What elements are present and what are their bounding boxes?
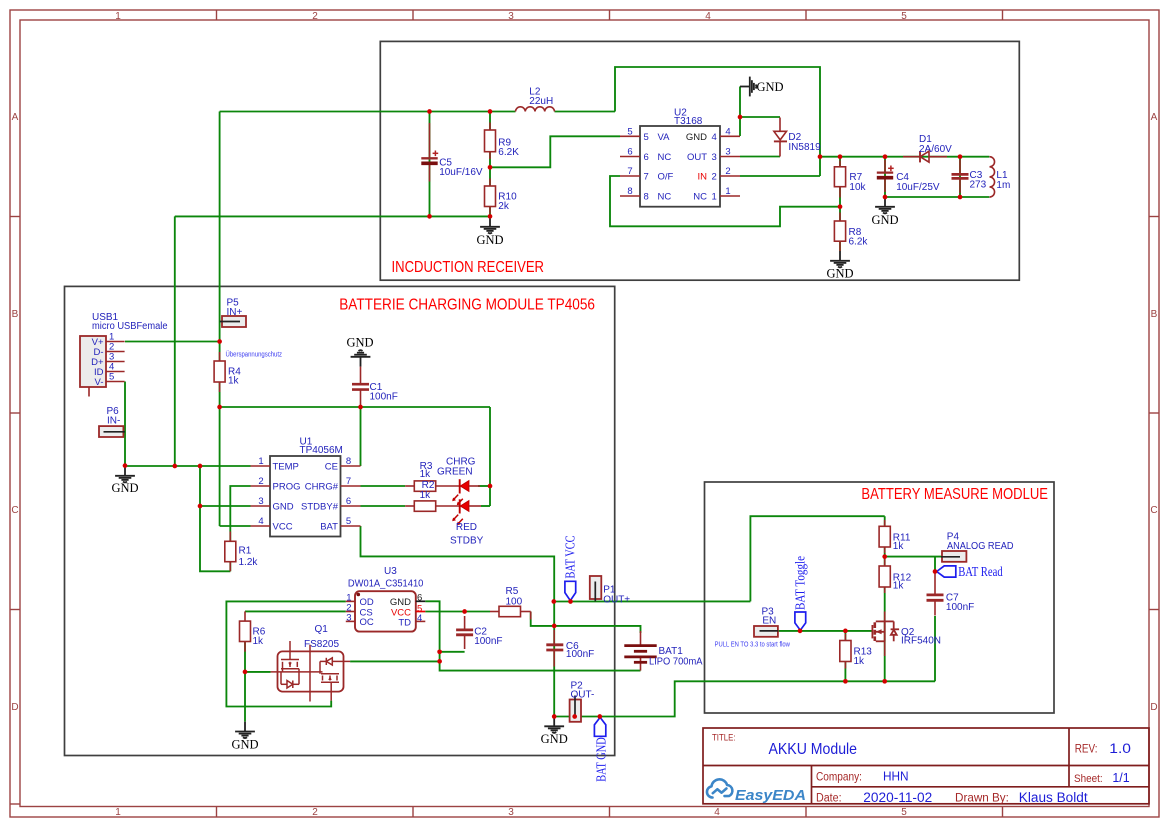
svg-text:Sheet:: Sheet:	[1074, 773, 1103, 785]
node R9 bottom	[488, 165, 493, 170]
svg-text:IN: IN	[698, 172, 708, 183]
svg-text:3: 3	[346, 613, 351, 624]
net flag BAT VCC	[562, 536, 577, 601]
node bat vcc flag	[568, 599, 573, 604]
svg-text:10uF/25V: 10uF/25V	[896, 182, 940, 193]
wire	[884, 516, 886, 681]
svg-text:1k: 1k	[420, 490, 432, 501]
node R7 top	[838, 154, 843, 159]
svg-text:273: 273	[970, 180, 987, 191]
wire	[350, 660, 440, 662]
resistor R2	[405, 501, 459, 511]
op-amp U3 DW01A	[346, 566, 426, 631]
svg-text:3: 3	[258, 496, 263, 507]
net flag BAT GND	[593, 717, 608, 781]
wire	[844, 631, 846, 681]
node C6 top	[552, 624, 557, 629]
svg-text:5: 5	[109, 372, 114, 383]
svg-text:6: 6	[346, 496, 351, 507]
wire	[531, 612, 641, 634]
svg-text:5: 5	[901, 11, 907, 22]
ground (R6)	[231, 722, 258, 752]
svg-text:8: 8	[644, 192, 649, 203]
LED CHRG green	[437, 456, 480, 505]
svg-text:2k: 2k	[498, 201, 510, 212]
node usb gnd	[123, 463, 128, 468]
svg-text:22uH: 22uH	[529, 96, 553, 107]
svg-text:2: 2	[725, 166, 730, 177]
node temp2	[198, 464, 203, 469]
svg-text:2: 2	[312, 11, 318, 22]
wire	[220, 406, 490, 408]
svg-text:micro USBFemale: micro USBFemale	[92, 321, 168, 332]
svg-text:4: 4	[258, 516, 263, 527]
connector P5 IN+	[220, 297, 246, 327]
svg-text:IN-: IN-	[107, 415, 120, 426]
node R6 bottom	[243, 670, 248, 675]
connector P4 ANALOG READ	[941, 531, 1014, 562]
svg-text:BAT Read: BAT Read	[958, 564, 1003, 579]
node R7 bottom	[838, 204, 843, 209]
node C5 bottom	[427, 214, 432, 219]
svg-text:GND: GND	[111, 481, 138, 495]
ground (C4)	[871, 197, 898, 227]
wire	[740, 116, 780, 118]
svg-text:1k: 1k	[854, 656, 866, 667]
node C5 top	[427, 109, 432, 114]
ground (R10)	[476, 217, 503, 247]
wire	[934, 616, 936, 681]
svg-text:BATTERIE CHARGING MODULE TP405: BATTERIE CHARGING MODULE TP4056	[339, 297, 595, 314]
svg-text:GND: GND	[757, 80, 784, 94]
svg-text:2: 2	[258, 476, 263, 487]
wire	[174, 216, 176, 466]
resistor R4	[214, 352, 241, 392]
transistor Q1 FS8205	[271, 624, 351, 702]
svg-text:INCDUCTION RECEIVER: INCDUCTION RECEIVER	[392, 259, 545, 276]
svg-text:3: 3	[508, 807, 514, 818]
svg-text:TITLE:: TITLE:	[712, 733, 736, 744]
wire	[175, 215, 490, 217]
resistor R10	[485, 179, 518, 214]
wire	[200, 466, 230, 571]
svg-text:8: 8	[346, 456, 351, 467]
svg-text:C: C	[11, 505, 18, 516]
wire	[490, 136, 620, 167]
svg-text:1k: 1k	[893, 541, 905, 552]
node temp1	[172, 464, 177, 469]
wire	[220, 111, 516, 113]
svg-text:DW01A_C351410: DW01A_C351410	[348, 579, 424, 590]
wire	[839, 157, 841, 251]
svg-text:GND: GND	[686, 132, 707, 143]
node bat read	[933, 569, 938, 574]
wire	[245, 610, 346, 612]
svg-text:OUT-: OUT-	[571, 689, 595, 700]
svg-text:C: C	[1150, 505, 1157, 516]
wire	[125, 465, 251, 467]
wire	[425, 611, 490, 613]
svg-text:3: 3	[508, 11, 514, 22]
node U2 gnd	[738, 115, 743, 120]
connector P3 EN	[754, 606, 778, 637]
svg-text:IRF540N: IRF540N	[901, 636, 941, 647]
op-amp U2 T3168	[620, 108, 740, 207]
svg-text:TEMP: TEMP	[273, 462, 299, 473]
svg-text:1k: 1k	[228, 376, 240, 387]
svg-text:B: B	[1151, 309, 1158, 320]
svg-text:EasyEDA: EasyEDA	[735, 788, 806, 804]
wire	[934, 557, 936, 572]
svg-text:R1: R1	[239, 545, 252, 556]
svg-text:6.2k: 6.2k	[849, 237, 869, 248]
svg-text:GND: GND	[476, 233, 503, 247]
svg-text:OC: OC	[360, 617, 374, 628]
node OUT right	[818, 154, 823, 159]
svg-text:BAT1: BAT1	[659, 646, 684, 657]
svg-text:2A/60V: 2A/60V	[919, 144, 952, 155]
svg-text:OUT+: OUT+	[603, 594, 630, 605]
svg-text:GREEN: GREEN	[437, 466, 473, 477]
svg-text:D: D	[1150, 702, 1157, 713]
induction receiver box	[380, 41, 1019, 280]
wire	[739, 87, 741, 137]
wire	[959, 157, 961, 197]
wire	[125, 341, 220, 343]
node R10 bottom	[488, 214, 493, 219]
capacitor C4	[877, 160, 940, 193]
wire	[429, 112, 431, 217]
node C4 bottom	[883, 195, 888, 200]
wire	[361, 505, 406, 507]
node R9 top	[488, 109, 493, 114]
svg-text:Überspannungschutz: Überspannungschutz	[226, 351, 283, 359]
wire	[820, 156, 989, 158]
LED STDBY red	[450, 499, 484, 546]
svg-text:O/F: O/F	[658, 172, 674, 183]
svg-text:REV:: REV:	[1075, 744, 1098, 756]
capacitor C1	[352, 367, 398, 407]
svg-text:IN+: IN+	[227, 307, 243, 318]
svg-text:6.2K: 6.2K	[498, 147, 519, 158]
ground (C1, inverted)	[346, 336, 373, 367]
node R4 bottom	[217, 405, 222, 410]
transistor Q2 IRF540N	[872, 612, 941, 657]
svg-text:1k: 1k	[893, 581, 905, 592]
wire	[124, 382, 126, 467]
wire	[226, 601, 345, 706]
wire	[884, 157, 886, 197]
svg-text:GND: GND	[346, 336, 373, 350]
wire	[489, 112, 491, 217]
svg-text:6: 6	[627, 147, 632, 158]
connector P2 OUT-	[570, 681, 595, 722]
node C3 bottom	[958, 195, 963, 200]
wire	[244, 642, 246, 722]
svg-text:3: 3	[725, 147, 730, 158]
battery measure module box	[705, 482, 1055, 713]
svg-text:STDBY: STDBY	[450, 536, 484, 547]
wire	[750, 516, 884, 601]
node C1	[358, 405, 363, 410]
ground (sideways, U2)	[740, 77, 784, 97]
svg-text:Company:: Company:	[816, 770, 862, 784]
svg-text:Date:: Date:	[816, 793, 842, 805]
svg-text:GND: GND	[541, 732, 568, 746]
node C3 top	[958, 154, 963, 159]
svg-text:1k: 1k	[420, 469, 432, 480]
resistor R6	[240, 611, 266, 651]
svg-text:4: 4	[705, 11, 711, 22]
svg-text:1: 1	[258, 456, 263, 467]
wire	[885, 556, 943, 558]
svg-text:5: 5	[644, 132, 649, 143]
node out+ corner	[551, 599, 556, 604]
svg-text:4: 4	[417, 613, 422, 624]
svg-text:BAT GND: BAT GND	[593, 737, 608, 782]
wire	[610, 176, 840, 226]
svg-text:1m: 1m	[996, 180, 1010, 191]
wire	[740, 175, 820, 177]
svg-text:1: 1	[712, 192, 717, 203]
op-amp U1 TP4056M	[251, 436, 361, 536]
svg-text:1: 1	[115, 807, 121, 818]
wire	[778, 630, 871, 632]
inductor L1	[990, 157, 1011, 197]
svg-text:BAT: BAT	[320, 522, 338, 533]
wire	[425, 601, 640, 670]
svg-text:PULL EN TO 3.3 to start flow: PULL EN TO 3.3 to start flow	[715, 639, 791, 648]
svg-text:GND: GND	[273, 502, 294, 513]
svg-text:10k: 10k	[849, 182, 866, 193]
resistor R13	[840, 634, 872, 669]
wire	[554, 600, 750, 602]
wire	[200, 505, 251, 507]
wire	[245, 671, 271, 673]
resistor R12	[879, 559, 911, 594]
svg-text:CE: CE	[325, 462, 338, 473]
svg-text:IN5819: IN5819	[788, 142, 821, 153]
wire	[478, 485, 490, 487]
svg-text:BAT VCC: BAT VCC	[562, 536, 577, 579]
svg-text:7: 7	[644, 172, 649, 183]
capacitor C2	[456, 616, 502, 649]
wire	[220, 525, 251, 527]
svg-text:6: 6	[644, 152, 649, 163]
svg-text:7: 7	[627, 166, 632, 177]
battery charging module box	[65, 286, 615, 755]
svg-text:Klaus Boldt: Klaus Boldt	[1019, 790, 1088, 805]
svg-text:NC: NC	[658, 152, 672, 163]
svg-text:2020-11-02: 2020-11-02	[863, 790, 932, 805]
diode D1	[903, 134, 952, 162]
svg-text:2: 2	[312, 807, 318, 818]
title block	[703, 728, 1149, 805]
svg-text:GND: GND	[231, 737, 258, 751]
svg-text:ANALOG READ: ANALOG READ	[947, 541, 1014, 552]
node P5	[217, 339, 222, 344]
wire	[361, 526, 555, 717]
svg-text:PROG: PROG	[273, 482, 301, 493]
svg-text:U3: U3	[384, 566, 397, 577]
node led1	[488, 484, 493, 489]
svg-text:4: 4	[714, 807, 720, 818]
svg-text:FS8205: FS8205	[304, 639, 339, 650]
svg-text:CHRG#: CHRG#	[305, 482, 339, 493]
svg-text:TP4056M: TP4056M	[300, 445, 343, 456]
svg-text:A: A	[12, 112, 19, 123]
node C4 top	[883, 154, 888, 159]
diode D2	[774, 118, 821, 157]
resistor R1	[225, 532, 259, 572]
svg-text:VCC: VCC	[273, 522, 293, 533]
ground (USB)	[111, 466, 138, 495]
svg-text:1: 1	[115, 11, 121, 22]
ground (R8)	[826, 251, 853, 281]
node gnd3	[198, 504, 203, 509]
svg-text:EN: EN	[762, 616, 776, 627]
section boxes	[65, 41, 1055, 755]
svg-text:7: 7	[346, 476, 351, 487]
svg-text:Drawn By:: Drawn By:	[955, 791, 1009, 805]
net flag BAT Read	[937, 564, 1003, 579]
svg-text:100: 100	[506, 596, 523, 607]
wire	[481, 505, 490, 507]
svg-text:5: 5	[346, 516, 351, 527]
svg-text:1.2k: 1.2k	[239, 557, 259, 568]
ground (P2)	[541, 717, 568, 747]
node C2 bottom	[437, 649, 442, 654]
node Q2 source	[882, 679, 887, 684]
svg-text:2: 2	[712, 172, 717, 183]
svg-text:5: 5	[901, 807, 907, 818]
svg-text:6: 6	[417, 593, 422, 604]
svg-text:100nF: 100nF	[566, 649, 594, 660]
resistor R3	[405, 461, 459, 501]
texts	[0, 0, 1, 1]
svg-text:NC: NC	[658, 192, 672, 203]
svg-text:B: B	[12, 309, 19, 320]
wire	[489, 407, 491, 506]
wire	[361, 485, 406, 487]
svg-text:STDBY#: STDBY#	[301, 502, 339, 513]
wire	[554, 681, 935, 716]
wire	[885, 196, 989, 198]
svg-text:10uF/16V: 10uF/16V	[439, 167, 483, 178]
node R11 bottom	[882, 554, 887, 559]
svg-text:RED: RED	[456, 522, 477, 533]
resistor R8	[834, 213, 868, 252]
svg-text:LIPO 700mA: LIPO 700mA	[649, 657, 703, 668]
svg-text:AKKU Module: AKKU Module	[769, 741, 858, 758]
node bat gnd flag	[597, 714, 602, 719]
svg-text:4: 4	[725, 126, 730, 137]
resistor R5	[490, 586, 531, 620]
svg-text:TD: TD	[398, 617, 411, 628]
svg-text:1: 1	[725, 186, 730, 197]
svg-text:100nF: 100nF	[474, 636, 502, 647]
svg-text:V-: V-	[95, 377, 104, 388]
svg-text:A: A	[1151, 112, 1158, 123]
svg-text:100nF: 100nF	[370, 392, 398, 403]
wire	[555, 111, 616, 113]
wire	[219, 112, 221, 527]
wire	[360, 407, 362, 466]
svg-text:Q1: Q1	[315, 624, 329, 635]
wire	[740, 156, 780, 158]
svg-text:D: D	[11, 702, 18, 713]
svg-text:GND: GND	[826, 267, 853, 281]
svg-text:8: 8	[627, 186, 632, 197]
node P2 pin	[572, 714, 577, 719]
node P2 gnd	[552, 714, 557, 719]
capacitor C5	[421, 123, 483, 182]
capacitor C7	[927, 572, 975, 616]
svg-text:HHN: HHN	[883, 769, 909, 784]
svg-text:OUT: OUT	[687, 152, 707, 163]
capacitor C3	[952, 160, 987, 193]
resistor R11	[879, 520, 911, 553]
EasyEDA logo	[707, 779, 732, 797]
wire	[440, 651, 465, 653]
node q1 right	[437, 659, 442, 664]
node C2 top	[462, 609, 467, 614]
svg-text:5: 5	[627, 126, 632, 137]
resistor R9	[485, 123, 520, 160]
wire	[230, 486, 250, 571]
node bat toggle	[798, 629, 803, 634]
svg-text:BATTERY MEASURE MODLUE: BATTERY MEASURE MODLUE	[861, 486, 1048, 503]
svg-text:1k: 1k	[253, 636, 265, 647]
node R13 top	[843, 629, 848, 634]
svg-text:1/1: 1/1	[1112, 771, 1129, 785]
svg-text:T3168: T3168	[674, 116, 703, 127]
connector P6 IN-	[99, 406, 125, 437]
net flag BAT Toggle	[792, 556, 807, 630]
svg-text:100nF: 100nF	[946, 602, 974, 613]
svg-text:GND: GND	[871, 213, 898, 227]
svg-text:4: 4	[712, 132, 717, 143]
svg-text:1.0: 1.0	[1109, 741, 1131, 756]
battery BAT1	[624, 631, 702, 671]
inductor L2	[516, 87, 555, 112]
svg-text:3: 3	[712, 152, 717, 163]
wire	[615, 67, 820, 176]
resistor R7	[834, 161, 866, 198]
capacitor C6	[546, 630, 594, 667]
svg-text:BAT Toggle: BAT Toggle	[792, 556, 807, 610]
connector USB1 micro USBFemale	[80, 312, 168, 397]
svg-text:VA: VA	[658, 132, 671, 143]
connector P1 OUT+	[590, 576, 631, 605]
node R13 bottom	[843, 679, 848, 684]
svg-text:NC: NC	[693, 192, 707, 203]
